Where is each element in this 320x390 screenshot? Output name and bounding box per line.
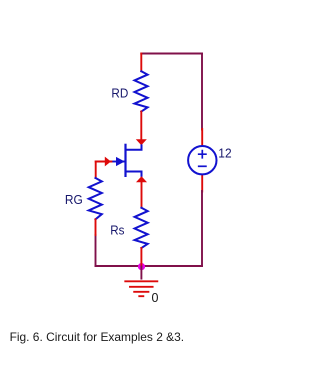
wire top rail <box>141 53 202 55</box>
transistor source lead <box>126 172 141 176</box>
V1 plus sign <box>199 151 206 158</box>
svg-text:0: 0 <box>152 291 159 305</box>
pin RG top / left corner <box>95 162 97 179</box>
resistor RG <box>89 178 102 219</box>
pin RD top <box>140 54 142 72</box>
svg-text:RD: RD <box>111 86 128 101</box>
pin transistor source <box>141 182 143 208</box>
wire left lower <box>95 235 97 266</box>
junction node dot <box>138 263 145 270</box>
wire right lower <box>201 191 203 266</box>
transistor gate arrow (blue) <box>116 157 125 166</box>
svg-text:RG: RG <box>65 192 83 207</box>
current arrow source (up) <box>136 176 147 182</box>
svg-text:12: 12 <box>218 145 231 160</box>
transistor gate lead <box>113 161 126 163</box>
wire gate stub <box>96 161 112 163</box>
transistor drain lead <box>126 145 141 149</box>
voltage source V1 circle <box>188 146 216 174</box>
current arrow drain (down) <box>136 139 147 145</box>
pin RG bottom <box>95 219 97 235</box>
ground bars <box>125 281 157 296</box>
resistor RD <box>135 71 148 111</box>
wire bottom rail <box>96 265 203 267</box>
svg-text:Rs: Rs <box>110 223 125 238</box>
pin RD bottom <box>140 112 142 140</box>
V1 minus sign <box>199 165 206 167</box>
resistor Rs <box>135 208 148 248</box>
current arrow gate (right) <box>105 157 111 167</box>
wire right upper <box>201 54 203 130</box>
svg-text:Fig. 6. Circuit for Examples 2: Fig. 6. Circuit for Examples 2 &3. <box>10 330 184 344</box>
pin V1 plus <box>201 129 203 146</box>
pin Rs bottom (over dot) <box>140 248 142 266</box>
transistor channel bar <box>124 145 126 176</box>
ground stem (over dot) <box>140 267 142 279</box>
pin V1 minus <box>201 175 203 192</box>
